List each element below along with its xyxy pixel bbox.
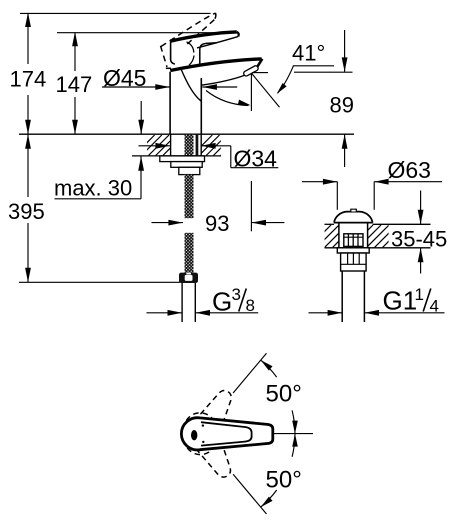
svg-text:41°: 41°: [292, 41, 325, 66]
drain deck bottom line: [325, 247, 431, 249]
arrow O45 right: [202, 84, 217, 90]
arrowheads: [25, 13, 423, 316]
svg-text:Ø45: Ø45: [103, 65, 146, 91]
svg-text:147: 147: [56, 72, 93, 97]
svg-text:50°: 50°: [266, 467, 302, 494]
41deg slant line (parallel to spout face): [252, 74, 280, 108]
O63 dim lines: [302, 181, 337, 183]
max30 leader: [55, 198, 142, 200]
arrow 41deg leader: [277, 83, 287, 94]
centerline: [252, 433, 313, 435]
body left edge: [169, 72, 171, 134]
mounting nut step 3: [179, 167, 200, 174]
svg-text:G1: G1: [383, 286, 418, 316]
svg-text:8: 8: [246, 296, 255, 315]
svg-text:G: G: [212, 287, 232, 317]
89 dim verticals: [344, 30, 346, 72]
svg-text:174: 174: [10, 67, 47, 92]
arc B (swivel arc): [206, 91, 249, 106]
threaded hose upper: [185, 175, 194, 219]
lever inner outline: [201, 422, 252, 445]
extension line top (174): [20, 12, 211, 14]
cap top notch: [351, 209, 357, 211]
svg-text:50°: 50°: [266, 381, 302, 408]
deck top line: [19, 133, 354, 135]
hatch right of hole: [192, 135, 241, 156]
dome cap: [334, 212, 373, 223]
arrow O63 left: [323, 179, 338, 185]
arrow G114 left: [328, 310, 343, 316]
O45 dim lines: [102, 86, 170, 88]
hatch left of hole: [134, 135, 191, 156]
svg-text:395: 395: [8, 199, 45, 224]
41deg leader curve: [278, 66, 294, 93]
extension line 147: [57, 32, 237, 34]
drain body edges: [338, 223, 340, 248]
svg-text:Ø34: Ø34: [234, 146, 278, 172]
dim line 147 vertical: [74, 33, 76, 71]
mounting nut step 2: [171, 162, 202, 168]
50deg slant reference upper: [233, 353, 266, 393]
G3/8 dim lines: [147, 312, 183, 314]
drain flange below deck: [337, 248, 369, 253]
arrow O63 right: [374, 179, 389, 185]
50deg slant reference lower: [233, 474, 266, 514]
arrow 395 bottom: [25, 268, 31, 283]
arrow max30 lower: [138, 156, 144, 171]
drain deck top line: [325, 223, 335, 225]
spout end face: [257, 59, 262, 67]
svg-text:89: 89: [330, 93, 354, 118]
dashed raised lever: [161, 13, 216, 68]
svg-text:1: 1: [415, 285, 424, 304]
dashed lever rotated down: [178, 407, 241, 484]
svg-text:max. 30: max. 30: [54, 176, 132, 201]
svg-text:35-45: 35-45: [391, 227, 447, 252]
35-45 verticals: [420, 191, 422, 225]
threaded shank in hole: [185, 135, 194, 156]
lever boss shadow curve: [187, 42, 194, 53]
arc arrowheads: [261, 360, 273, 371]
93 vertical reference from aerator: [250, 74, 252, 111]
arrow O45 left: [155, 84, 170, 90]
upper 50deg arc: [261, 360, 277, 377]
mounting washer: [160, 156, 205, 162]
arrow 93 right: [252, 220, 267, 226]
svg-text:3: 3: [232, 285, 241, 304]
arrow arcB: [238, 100, 251, 106]
G1 1/4 dim lines: [309, 312, 343, 314]
arrow 35-45 top: [418, 210, 424, 225]
arrow 147 top: [72, 32, 78, 47]
dashed lever rotated up: [178, 383, 241, 484]
lever neck: [200, 43, 217, 65]
drain nut: [341, 253, 367, 271]
overflow slot box: [344, 234, 363, 247]
svg-text:4: 4: [430, 297, 439, 316]
logo oval: [191, 430, 197, 440]
hose crimp collar: [179, 273, 198, 283]
arrow G38 left: [168, 310, 183, 316]
arrow 174 bottom: [25, 120, 31, 135]
deck bottom line: [132, 155, 221, 157]
drain deck hatch left: [309, 225, 355, 247]
tailpipe: [341, 271, 343, 322]
indicator dots: [202, 424, 204, 426]
arrow O34 right: [201, 143, 216, 149]
arrow 35-45 bottom: [418, 248, 424, 262]
arrow G38 right: [196, 310, 211, 316]
body front profile arc: [181, 69, 201, 101]
lower 50deg arc: [292, 434, 295, 457]
arrow 93 left: [168, 220, 183, 226]
93 dim lines: [152, 222, 183, 224]
arrow G114 right: [365, 310, 380, 316]
drain deck hatch right: [351, 225, 405, 247]
dim line 174/395 vertical: [27, 13, 29, 64]
arrow max30 upper: [138, 120, 144, 135]
G3/8 pipe: [181, 283, 183, 322]
spout underside: [202, 75, 245, 85]
arrow 89 bottom: [342, 134, 348, 149]
body upper-left edge: [171, 42, 175, 65]
arrow 89 top: [342, 57, 348, 72]
arrow O34 left: [155, 143, 170, 149]
lever (solid, side view): [170, 32, 237, 41]
threaded hose lower: [185, 233, 194, 273]
O63 extension verticals: [336, 182, 338, 210]
body right edge: [200, 78, 202, 134]
arrow 174 top: [25, 13, 31, 28]
horizontal reference at aerator height: [252, 72, 268, 74]
spout top edge: [170, 59, 261, 71]
solid lever outline (top view): [181, 418, 272, 450]
aerator: [243, 65, 259, 77]
41deg underline: [293, 65, 334, 67]
hole edges: [170, 134, 172, 156]
arrow 395 top: [25, 134, 31, 149]
arrow 147 bottom: [72, 120, 78, 135]
extension line 395 bottom: [19, 281, 180, 283]
O34 dim lines + leader to label: [139, 145, 170, 147]
svg-text:93: 93: [205, 211, 229, 236]
svg-text:Ø63: Ø63: [388, 157, 431, 183]
